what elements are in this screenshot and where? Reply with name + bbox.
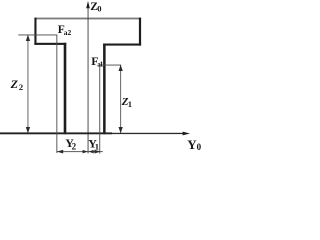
svg-text:a2: a2 [64,28,72,37]
axis Y0 baseline (section bottom) [0,132,112,134]
svg-text:2: 2 [72,141,77,151]
dimension Z2 top arrowhead [26,35,30,41]
section flange bottom-right edge [103,44,141,46]
extension line Fa1/Y1 vertical [98,65,101,154]
axis Z0 arrowhead [86,1,90,8]
axis Y0 line right part [112,133,184,134]
section flange bottom-left edge [34,43,66,45]
svg-text:Z: Z [10,77,19,91]
extension line Fa2 horizontal [18,34,57,37]
dimension line Z2 [27,35,30,133]
bottom dimension line Y2/Y1 [57,150,103,153]
svg-text:1: 1 [128,99,132,109]
dimension Y2 left arrowhead [57,150,63,154]
dimension Z1 top arrowhead [119,65,123,71]
dimension Y1 right arrowhead [94,150,100,154]
svg-text:a1: a1 [97,61,103,69]
dimension Y2 right arrowhead [83,150,88,154]
svg-text:1: 1 [95,141,99,151]
extension line Fa2 vertical [55,35,58,154]
dimension Z1 bottom arrowhead [119,127,123,133]
svg-text:2: 2 [19,82,23,92]
svg-text:0: 0 [197,142,202,152]
extension line Fa1 horizontal [99,64,121,67]
axis Y0 arrowhead [183,132,190,136]
section stem left edge [64,43,67,134]
dimension Y1 left arrowhead [89,150,94,154]
axis Z0 line [87,3,90,154]
section flange top edge [35,18,142,20]
section flange left edge [34,18,36,45]
svg-text:0: 0 [97,3,101,13]
section flange right edge [139,18,141,46]
section stem right edge [103,44,106,135]
dimension line Z1 [119,65,122,133]
dimension Z2 bottom arrowhead [26,127,30,133]
